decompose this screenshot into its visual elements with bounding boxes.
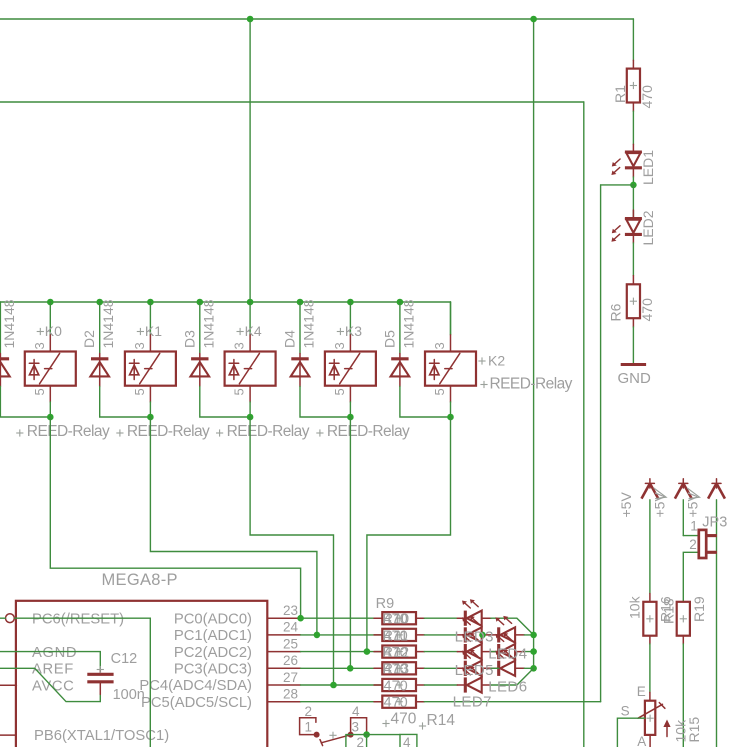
wire PC5 row to net (424, 701, 600, 703)
LED row25 right (491, 633, 525, 660)
svg-text:PC6(/RESET): PC6(/RESET) (32, 611, 124, 627)
junction rail row25 (530, 648, 537, 655)
pin stub 28 (267, 701, 300, 703)
label switch pin 3 (352, 719, 360, 734)
label R15 pin S (621, 704, 630, 719)
wire K1 pin5 down (149, 402, 151, 417)
label switch pin4 box (403, 735, 411, 747)
pin 3 label K1 (132, 342, 147, 349)
svg-text:PC5(ADC5/SCL): PC5(ADC5/SCL) (141, 695, 252, 711)
wire resistor to LED row 25 (424, 651, 457, 653)
svg-text:K4: K4 (245, 323, 262, 339)
label R12 name overlapped (383, 645, 410, 661)
pin 5 label K2 (432, 388, 447, 395)
wire LED1 to junction (632, 177, 634, 185)
svg-text:1: 1 (305, 719, 313, 734)
resistor R19 (677, 602, 690, 644)
svg-text:470: 470 (639, 298, 655, 322)
label relay K2 value REED-Relay (480, 375, 572, 392)
label relay K2 name (478, 353, 505, 369)
label value 470 on resistor (384, 695, 408, 711)
svg-text:PC3(ADC3): PC3(ADC3) (174, 662, 252, 678)
svg-text:25: 25 (283, 636, 298, 651)
LED LED6 left (457, 666, 491, 693)
svg-text:1N4148: 1N4148 (200, 299, 216, 348)
svg-text:PC2(ADC2): PC2(ADC2) (174, 645, 252, 661)
junction PC2 net (364, 648, 371, 655)
label switch pin 2 (305, 704, 313, 719)
svg-text:R14: R14 (427, 712, 456, 729)
label value 470 on resistor (384, 612, 408, 628)
svg-text:A: A (637, 734, 646, 747)
label switch pin2 box (357, 735, 365, 747)
svg-text:PB6(XTAL1/TOSC1): PB6(XTAL1/TOSC1) (34, 728, 169, 744)
svg-text:REED-Relay: REED-Relay (327, 423, 410, 440)
svg-text:470: 470 (384, 662, 408, 678)
diode D4 1N4148 (291, 354, 310, 387)
svg-text:1N4148: 1N4148 (1, 299, 17, 348)
pin stub 24 (267, 634, 300, 636)
wire net K1 coil to PC1 (150, 417, 317, 635)
svg-text:R1: R1 (612, 85, 628, 103)
svg-text:3: 3 (432, 342, 447, 349)
svg-text:470: 470 (639, 85, 655, 109)
pin 5 label K0 (32, 388, 47, 395)
wire net K2 coil to PC2 (367, 417, 451, 652)
label relay name K3 (337, 323, 362, 339)
resistor R13 (374, 679, 424, 691)
pin number 27 (283, 670, 298, 685)
pin PC2(ADC2) name (174, 645, 252, 661)
ghost chevron 2 (687, 488, 699, 499)
svg-text:2: 2 (689, 537, 697, 552)
pin number 26 (283, 653, 298, 668)
pin PB6 stub (0, 734, 16, 736)
label D3 value 1N4148 (200, 299, 216, 348)
pin 5 label K3 (332, 388, 347, 395)
label relay value REED-Relay K3 (316, 423, 410, 440)
label value 470 on resistor (384, 628, 408, 644)
IC U1 MEGA8-P box (16, 601, 267, 747)
wire pin 23 to resistor (301, 617, 383, 619)
wire resistor to LED row 27 (424, 684, 457, 686)
label R15 pin E (637, 684, 646, 699)
label relay value REED-Relay K1 (116, 423, 210, 440)
label R6 value 470 (639, 298, 655, 322)
svg-text:10k: 10k (627, 595, 643, 619)
label R10 name overlapped (383, 612, 410, 628)
wire LED2 to R6 (632, 243, 634, 276)
wire net AREF (0, 668, 100, 701)
junction rail row26 end (530, 665, 537, 672)
svg-text:PC1(ADC1): PC1(ADC1) (174, 628, 252, 644)
switch contact 3 (351, 718, 367, 735)
wire R16 to R15 (649, 644, 651, 692)
wire vertical to K4 pin3 column (249, 19, 251, 302)
power +5V symbol 1 (642, 479, 659, 499)
jumper JP3 (699, 530, 717, 558)
svg-text:R9: R9 (376, 596, 395, 612)
wire +5V3 down (716, 500, 718, 747)
wire net K0 coil to PC0 (50, 417, 300, 618)
svg-text:MEGA8-P: MEGA8-P (102, 571, 178, 589)
svg-text:LED7: LED7 (453, 694, 492, 711)
wire K0 pin5 down (49, 402, 51, 417)
svg-text:5: 5 (332, 388, 347, 395)
junction K4 coil node (247, 414, 254, 421)
wire net K4 coil to PC4 (250, 417, 333, 685)
junction LED3 anode (479, 632, 486, 639)
wire +5V2 down to JP3 pin1 (682, 500, 684, 536)
label R18 name overlapped (661, 598, 677, 624)
svg-text:3: 3 (232, 342, 247, 349)
svg-text:REED-Relay: REED-Relay (490, 375, 573, 392)
pin stub 25 (267, 651, 300, 653)
pin 3 label K2 (432, 342, 447, 349)
junction bus at D2 (96, 299, 103, 306)
wire D3 bottom to K4 (200, 387, 250, 418)
svg-text:27: 27 (283, 670, 298, 685)
wire pin 24 to resistor (301, 634, 383, 636)
wire pin 28 to resistor (301, 701, 383, 703)
svg-text:K1: K1 (145, 323, 162, 339)
label C12 name (111, 651, 138, 667)
label LED7 (453, 694, 492, 711)
resistor R9 (374, 612, 424, 624)
resistor R14 (374, 696, 424, 708)
pin PC5(ADC5/SCL) name (141, 695, 252, 711)
svg-text:2: 2 (357, 735, 365, 747)
wire net PC6 inside (15, 618, 151, 747)
pin PC1(ADC1) name (174, 628, 252, 644)
svg-text:PC4(ADC4/SDA): PC4(ADC4/SDA) (139, 678, 252, 694)
label D4 value 1N4148 (301, 299, 317, 348)
wire second rail corner down (583, 102, 585, 747)
trimmer R15 (638, 692, 671, 747)
svg-text:JP3: JP3 (702, 515, 727, 531)
svg-text:3: 3 (352, 719, 360, 734)
label JP3 pin 2 (689, 537, 697, 552)
pin 5 label K1 (132, 388, 147, 395)
svg-text:AVCC: AVCC (32, 678, 74, 694)
LED LED3 left (457, 616, 491, 643)
pin number 28 (283, 687, 298, 702)
power +5V symbol 2 (675, 479, 692, 499)
wire net PC5 vertical long (600, 185, 602, 702)
junction bus at K4 pin3 (247, 299, 254, 306)
svg-text:2: 2 (305, 704, 313, 719)
pin PC6 bubble and stub (5, 614, 15, 623)
resistor R12 (374, 662, 424, 674)
relay K1 REED-Relay (125, 335, 176, 402)
wire net +5V top rail (0, 18, 633, 20)
pin AREF name (32, 662, 74, 678)
relay K2 REED-Relay (425, 335, 476, 402)
label R15 pin A (637, 734, 646, 747)
svg-text:K2: K2 (488, 353, 505, 369)
svg-text:470: 470 (384, 695, 408, 711)
svg-text:D4: D4 (282, 330, 298, 348)
pin PC4(ADC4/SDA) name (139, 678, 252, 694)
junction PC1 net (314, 632, 321, 639)
svg-text:24: 24 (283, 620, 299, 635)
label +5V 3 (685, 492, 701, 518)
pin 3 label K3 (332, 342, 347, 349)
svg-text:28: 28 (283, 687, 298, 702)
svg-text:100n: 100n (113, 687, 145, 703)
svg-text:AGND: AGND (32, 645, 77, 661)
svg-text:+5V: +5V (651, 492, 667, 518)
junction LED1 LED2 node (630, 182, 637, 189)
label R1 value 470 (639, 85, 655, 109)
svg-text:LED3: LED3 (455, 629, 494, 646)
svg-text:REED-Relay: REED-Relay (227, 423, 310, 440)
wire D2 top (99, 302, 101, 354)
label R14 value 470 (382, 711, 416, 728)
svg-text:K3: K3 (345, 323, 362, 339)
wire D4 bottom to K3 (300, 387, 350, 418)
wire resistor to LED row 24 (424, 634, 457, 636)
wire net K3 coil to PC3 (349, 417, 351, 668)
label R6 name (608, 303, 624, 321)
svg-text:4: 4 (352, 704, 360, 719)
label relay name K4 (237, 323, 262, 339)
wire K4 pin3 (249, 302, 251, 335)
pin PB6(XTAL1/TOSC1) name (34, 728, 169, 744)
svg-text:1N4148: 1N4148 (400, 299, 416, 348)
label value 470 on resistor (384, 645, 408, 661)
label D5 name (381, 330, 397, 348)
wire R6 to GND (632, 327, 634, 364)
wire contact4 box (400, 734, 417, 747)
svg-text:E: E (637, 684, 646, 699)
wire D2 bottom to K1 (100, 387, 151, 418)
wire D5 top (399, 302, 401, 354)
pin AVCC name (32, 678, 74, 694)
wire row26 right LED to rail (524, 667, 533, 669)
wire pin 26 to resistor (301, 667, 383, 669)
pin number 25 (283, 636, 298, 651)
relay K3 REED-Relay (325, 335, 376, 402)
wire net second rail (0, 101, 584, 103)
label R15 name (686, 717, 702, 743)
wire top rail corner down to R1 (632, 19, 634, 60)
pivot dot contact3 (348, 732, 354, 738)
svg-text:LED4: LED4 (488, 645, 527, 662)
resistor R1 (627, 60, 640, 111)
wire net AGND (0, 652, 100, 670)
svg-text:3: 3 (32, 342, 47, 349)
svg-text:470: 470 (384, 628, 408, 644)
wire JP3 pin2 to R19 (683, 552, 699, 602)
wire junction left (601, 184, 634, 186)
pin stub 23 (267, 617, 300, 619)
label LED1 name (640, 150, 656, 185)
junction PC4 net (330, 682, 337, 689)
label LED2 name (640, 210, 656, 245)
label R14 name (419, 712, 455, 730)
label D1 value 1N4148 (1, 299, 17, 348)
junction K3 coil node (347, 414, 354, 421)
svg-text:+5V: +5V (618, 492, 634, 518)
svg-text:LED5: LED5 (455, 662, 494, 679)
wire LED row23 to rail diagonal (491, 618, 534, 635)
power +5V symbol 3 (708, 479, 725, 499)
ground GND (618, 365, 652, 388)
wire junction to LED2 (632, 185, 634, 219)
resistor R11 (374, 646, 424, 658)
junction bus at D5 (397, 299, 404, 306)
wire K2 pin5 down (450, 402, 452, 417)
junction at top rail x250 (247, 16, 254, 23)
label R11 name overlapped (383, 628, 409, 644)
junction at top rail x533 (530, 16, 537, 23)
wire pin 27 to resistor (301, 684, 383, 686)
switch contact 1 (300, 718, 317, 735)
wire LED row27 to rail diagonal (491, 668, 534, 685)
wire row26 mid (491, 667, 499, 669)
label relay name K0 (37, 323, 62, 339)
wire D4 top (299, 302, 301, 354)
pin 3 label K4 (232, 342, 247, 349)
LED row23 left (457, 599, 491, 626)
label R1 name (612, 85, 628, 103)
pin PC6(/RESET) name (32, 611, 124, 627)
diode D5 1N4148 (391, 354, 410, 387)
svg-text:AREF: AREF (32, 662, 74, 678)
svg-text:470: 470 (384, 645, 408, 661)
wire contact2 box (346, 735, 367, 747)
pin 5 label K4 (232, 388, 247, 395)
pin PC0(ADC0) name (174, 611, 252, 627)
label +5V 1 (618, 492, 634, 518)
switch lever (320, 732, 351, 746)
wire row25 right LED to rail (524, 651, 533, 653)
pin number 24 (283, 620, 299, 635)
junction bus at K0 pin3 (47, 299, 54, 306)
junction bus at D3 (197, 299, 204, 306)
svg-text:1N4148: 1N4148 (100, 299, 116, 348)
pin stub 26 (267, 667, 300, 669)
resistor R6 (627, 276, 640, 327)
label R19 name (691, 596, 707, 622)
label R15 value 10k (673, 719, 689, 743)
svg-text:5: 5 (232, 388, 247, 395)
junction bus at K3 pin3 (347, 299, 354, 306)
svg-text:GND: GND (618, 370, 652, 387)
label LED5 (455, 662, 494, 679)
svg-text:470: 470 (384, 612, 408, 628)
junction K2 coil node (447, 414, 454, 421)
wire K1 pin3 (149, 302, 151, 335)
pin number 23 (283, 603, 298, 618)
label R16 name overlapped (658, 596, 674, 622)
label value 470 on resistor (384, 662, 408, 678)
svg-text:PC0(ADC0): PC0(ADC0) (174, 611, 252, 627)
resistor R10 (374, 629, 424, 641)
wire resistor to LED row 23 (424, 617, 457, 619)
wire D1 top (0, 302, 1, 354)
junction bus at K1 pin3 (147, 299, 154, 306)
svg-text:R19: R19 (691, 596, 707, 622)
wire row25 mid (491, 651, 499, 653)
label LED6 (488, 679, 527, 696)
LED LED4 left (457, 633, 491, 660)
svg-text:470: 470 (384, 678, 408, 694)
pin AVCC stub (0, 684, 16, 686)
svg-text:5: 5 (132, 388, 147, 395)
svg-text:470: 470 (391, 711, 417, 728)
svg-text:LED6: LED6 (488, 679, 527, 696)
svg-text:5: 5 (32, 388, 47, 395)
wire K4 pin5 down (249, 402, 251, 417)
wire JP3 pin1 (683, 535, 699, 537)
junction rail row24 (530, 632, 537, 639)
label +5V 2 (651, 492, 667, 518)
label LED3 (455, 629, 494, 646)
wire net RESET (0, 617, 6, 619)
resistor R16 10k (643, 594, 656, 645)
svg-text:23: 23 (283, 603, 298, 618)
svg-text:3: 3 (132, 342, 147, 349)
LED row26 right (491, 649, 525, 676)
svg-text:R18: R18 (661, 598, 677, 624)
junction PC3 net (347, 665, 354, 672)
wire relay coil top bus (0, 301, 451, 303)
label relay name K1 (137, 323, 162, 339)
label C12 value 100n (113, 687, 145, 703)
svg-text:D3: D3 (181, 330, 197, 348)
LED LED5 left (457, 649, 491, 676)
wire vertical LED matrix rail (533, 19, 535, 668)
pin 3 label K0 (32, 342, 47, 349)
svg-text:S: S (621, 704, 630, 719)
pin PC3(ADC3) name (174, 662, 252, 678)
LED LED2 (611, 210, 642, 243)
label D2 value 1N4148 (100, 299, 116, 348)
svg-text:5: 5 (432, 388, 447, 395)
svg-text:1N4148: 1N4148 (301, 299, 317, 348)
wire resistor to LED row 26 (424, 667, 457, 669)
junction switch common (363, 731, 370, 738)
label MEGA8-P (102, 571, 178, 589)
svg-text:3: 3 (332, 342, 347, 349)
label D5 value 1N4148 (400, 299, 416, 348)
label switch pin 4 (352, 704, 360, 719)
svg-text:D5: D5 (381, 330, 397, 348)
wire D1 bottom to K0 (0, 387, 50, 418)
label R9 name (376, 596, 395, 612)
junction K1 coil node (147, 414, 154, 421)
label D4 name (282, 330, 298, 348)
svg-text:REED-Relay: REED-Relay (27, 423, 110, 440)
LED row24 right (491, 616, 525, 643)
wire R19 down (682, 644, 684, 747)
wire pin 25 to resistor (301, 651, 383, 653)
wire R15 wiper S (617, 718, 645, 747)
junction bus at D4 (297, 299, 304, 306)
label switch pin 1 (305, 719, 313, 734)
LED LED1 (611, 144, 642, 177)
wire switch common (367, 734, 400, 736)
relay K4 REED-Relay (225, 335, 276, 402)
svg-text:1: 1 (690, 518, 698, 533)
wire K2 pin3 riser (450, 302, 452, 335)
label JP3 name (702, 515, 727, 531)
junction PC0 net (297, 615, 304, 622)
wire K2 pin3 (450, 302, 452, 335)
wire row24 right LED to rail (524, 634, 533, 636)
